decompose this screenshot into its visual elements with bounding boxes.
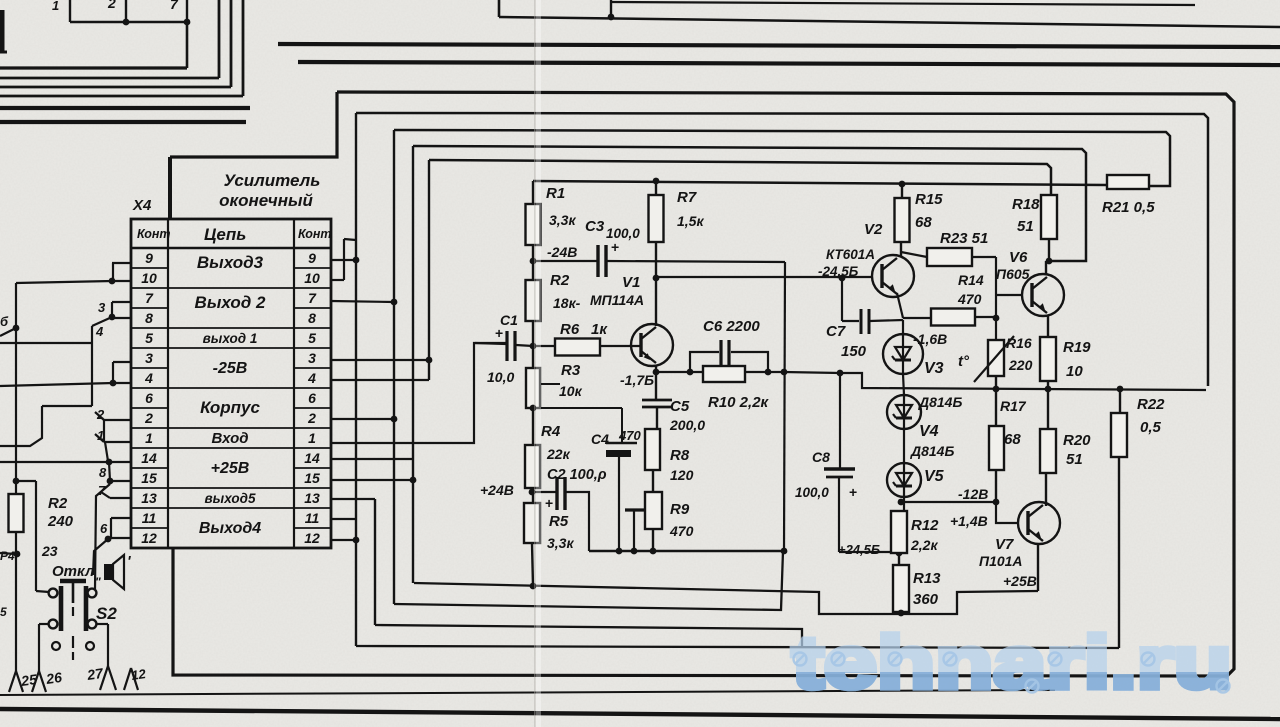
svg-text:выход 1: выход 1 bbox=[203, 331, 258, 346]
svg-text:R14: R14 bbox=[958, 272, 984, 288]
svg-text:R2: R2 bbox=[48, 495, 68, 512]
svg-text:R12: R12 bbox=[911, 517, 939, 534]
svg-text:100,0: 100,0 bbox=[606, 226, 640, 241]
svg-text:С4: С4 bbox=[591, 431, 609, 447]
svg-text:V6: V6 bbox=[1009, 249, 1028, 266]
svg-text:R15: R15 bbox=[915, 191, 943, 208]
svg-text:Д814Б: Д814Б bbox=[918, 394, 962, 410]
svg-text:3: 3 bbox=[145, 350, 153, 366]
svg-text:12: 12 bbox=[130, 666, 147, 683]
svg-text:R10 2,2к: R10 2,2к bbox=[708, 394, 770, 411]
svg-text:1: 1 bbox=[145, 430, 153, 446]
svg-text:R16: R16 bbox=[1006, 335, 1032, 351]
svg-text:68: 68 bbox=[1004, 431, 1021, 448]
svg-text:-25В: -25В bbox=[213, 360, 248, 377]
svg-text:12: 12 bbox=[304, 530, 320, 546]
svg-text:П101А: П101А bbox=[979, 553, 1023, 569]
svg-text:1: 1 bbox=[308, 430, 316, 446]
svg-text:R8: R8 bbox=[670, 447, 690, 464]
svg-text:2,2к: 2,2к bbox=[910, 537, 938, 553]
svg-text:V7: V7 bbox=[995, 536, 1014, 553]
svg-text:11: 11 bbox=[305, 510, 320, 526]
svg-text:8: 8 bbox=[308, 310, 316, 326]
svg-text:100,0: 100,0 bbox=[795, 485, 829, 500]
svg-text:10: 10 bbox=[141, 270, 157, 286]
svg-text:14: 14 bbox=[304, 450, 320, 466]
svg-text:3,3к: 3,3к bbox=[547, 535, 574, 551]
svg-text:10,0: 10,0 bbox=[487, 369, 514, 385]
svg-text:R4: R4 bbox=[541, 423, 561, 440]
svg-text:-1,6В: -1,6В bbox=[913, 331, 947, 347]
svg-text:15: 15 bbox=[141, 470, 157, 486]
svg-text:Выход4: Выход4 bbox=[199, 520, 261, 537]
svg-text:R1: R1 bbox=[546, 185, 565, 202]
svg-text:4: 4 bbox=[95, 324, 104, 339]
svg-text:-24,5Б: -24,5Б bbox=[818, 264, 859, 279]
svg-text:R21 0,5: R21 0,5 bbox=[1102, 199, 1155, 216]
svg-text:51: 51 bbox=[1066, 451, 1083, 468]
svg-text:-24В: -24В bbox=[547, 244, 577, 260]
svg-text:П605: П605 bbox=[996, 266, 1030, 282]
svg-text:R17: R17 bbox=[1000, 398, 1027, 414]
svg-text:2: 2 bbox=[144, 410, 153, 426]
svg-text:Д814Б: Д814Б bbox=[910, 443, 954, 459]
svg-text:Откл: Откл bbox=[52, 563, 95, 580]
svg-text:Усилитель: Усилитель bbox=[224, 171, 321, 190]
svg-text:С6 2200: С6 2200 bbox=[703, 318, 760, 335]
svg-text:360: 360 bbox=[913, 591, 939, 608]
svg-text:1к: 1к bbox=[591, 321, 608, 338]
svg-text:7: 7 bbox=[308, 290, 317, 306]
svg-text:Х4: Х4 bbox=[132, 197, 152, 214]
svg-text:200,0: 200,0 bbox=[669, 417, 705, 433]
svg-text:R3: R3 bbox=[561, 362, 581, 379]
svg-text:+: + bbox=[545, 495, 553, 511]
svg-text:18к-: 18к- bbox=[553, 295, 581, 311]
svg-text:С7: С7 bbox=[826, 323, 846, 340]
svg-text:5: 5 bbox=[308, 330, 316, 346]
svg-text:R7: R7 bbox=[677, 189, 697, 206]
svg-text:9: 9 bbox=[145, 250, 153, 266]
svg-text:R23 51: R23 51 bbox=[940, 230, 988, 247]
svg-text:10: 10 bbox=[1066, 363, 1083, 380]
svg-text:Конт: Конт bbox=[298, 227, 332, 241]
svg-text:3,3к: 3,3к bbox=[549, 212, 576, 228]
svg-text:14: 14 bbox=[141, 450, 157, 466]
svg-text:4: 4 bbox=[307, 370, 316, 386]
svg-text:выход5: выход5 bbox=[205, 491, 256, 506]
svg-text:11: 11 bbox=[142, 510, 157, 526]
svg-text:С5: С5 bbox=[670, 398, 690, 415]
svg-text:5: 5 bbox=[145, 330, 153, 346]
svg-text:2: 2 bbox=[96, 407, 105, 422]
svg-text:26: 26 bbox=[44, 669, 63, 687]
svg-text:12: 12 bbox=[141, 530, 157, 546]
svg-text:68: 68 bbox=[915, 214, 932, 231]
svg-text:КТ601А: КТ601А bbox=[826, 247, 875, 262]
svg-text:+: + bbox=[611, 239, 619, 255]
svg-text:240: 240 bbox=[47, 513, 74, 530]
svg-text:R2: R2 bbox=[550, 272, 570, 289]
svg-text:+24В: +24В bbox=[480, 482, 514, 498]
svg-text:1,5к: 1,5к bbox=[677, 213, 704, 229]
svg-text:V2: V2 bbox=[864, 221, 883, 238]
svg-text:Цепь: Цепь bbox=[204, 225, 246, 244]
svg-text:V4: V4 bbox=[919, 423, 939, 440]
svg-text:3: 3 bbox=[98, 300, 106, 315]
svg-text:R6: R6 bbox=[560, 321, 580, 338]
svg-text:R5: R5 bbox=[549, 513, 569, 530]
svg-text:15: 15 bbox=[304, 470, 320, 486]
svg-text:С2 100,ρ: С2 100,ρ bbox=[547, 467, 607, 483]
svg-text:22к: 22к bbox=[546, 446, 571, 462]
svg-text:13: 13 bbox=[304, 490, 320, 506]
svg-text:R22: R22 bbox=[1137, 396, 1165, 413]
svg-text:1: 1 bbox=[52, 0, 59, 13]
svg-text:R9: R9 bbox=[670, 501, 690, 518]
svg-text:1: 1 bbox=[97, 428, 104, 443]
svg-text:-1,7Б: -1,7Б bbox=[620, 372, 654, 388]
svg-text:S2: S2 bbox=[96, 604, 117, 623]
svg-text:470: 470 bbox=[957, 291, 982, 307]
svg-text:+1,4В: +1,4В bbox=[950, 513, 988, 529]
svg-text:С8: С8 bbox=[812, 449, 830, 465]
svg-text:-12В: -12В bbox=[958, 486, 988, 502]
svg-text:V3: V3 bbox=[924, 360, 944, 377]
svg-text:Корпус: Корпус bbox=[200, 398, 260, 417]
svg-text:6: 6 bbox=[145, 390, 153, 406]
svg-text:7: 7 bbox=[145, 290, 154, 306]
svg-text:25: 25 bbox=[19, 671, 38, 689]
svg-text:+24,5Б: +24,5Б bbox=[838, 542, 880, 557]
svg-text:10к: 10к bbox=[559, 383, 583, 399]
svg-text:+: + bbox=[849, 484, 857, 500]
svg-text:V1: V1 bbox=[622, 274, 640, 291]
svg-text:6: 6 bbox=[308, 390, 316, 406]
svg-text:+25В: +25В bbox=[211, 460, 250, 477]
svg-text:4: 4 bbox=[144, 370, 153, 386]
svg-text:13: 13 bbox=[141, 490, 157, 506]
svg-text:t°: t° bbox=[958, 353, 970, 370]
svg-text:51: 51 bbox=[1017, 218, 1034, 235]
svg-text:": " bbox=[95, 575, 101, 589]
svg-text:МП114А: МП114А bbox=[590, 292, 644, 308]
svg-text:R20: R20 bbox=[1063, 432, 1091, 449]
svg-text:R13: R13 bbox=[913, 570, 941, 587]
svg-text:23: 23 bbox=[41, 543, 58, 559]
svg-text:10: 10 bbox=[304, 270, 320, 286]
svg-text:С3: С3 bbox=[585, 218, 605, 235]
svg-text:9: 9 bbox=[308, 250, 316, 266]
svg-text:220: 220 bbox=[1008, 357, 1033, 373]
svg-text:0,5: 0,5 bbox=[1140, 419, 1162, 436]
svg-text:120: 120 bbox=[670, 467, 694, 483]
svg-text:8: 8 bbox=[99, 465, 107, 480]
svg-text:V5: V5 bbox=[924, 468, 945, 485]
svg-text:6: 6 bbox=[100, 521, 108, 536]
svg-text:': ' bbox=[127, 553, 131, 570]
svg-text:б: б bbox=[0, 314, 9, 329]
svg-text:470: 470 bbox=[669, 523, 694, 539]
svg-text:470: 470 bbox=[618, 428, 641, 443]
svg-text:5: 5 bbox=[0, 605, 7, 619]
svg-text:2: 2 bbox=[107, 0, 116, 11]
svg-text:R19: R19 bbox=[1063, 339, 1091, 356]
svg-text:Выход 2: Выход 2 bbox=[195, 293, 266, 312]
svg-text:150: 150 bbox=[841, 343, 867, 360]
svg-text:+25В: +25В bbox=[1003, 573, 1037, 589]
svg-text:С1: С1 bbox=[500, 312, 518, 328]
svg-text:3: 3 bbox=[308, 350, 316, 366]
svg-text:Вход: Вход bbox=[211, 430, 248, 447]
svg-text:R18: R18 bbox=[1012, 196, 1040, 213]
svg-text:Выход3: Выход3 bbox=[197, 253, 264, 272]
svg-text:2: 2 bbox=[307, 410, 316, 426]
svg-text:7: 7 bbox=[170, 0, 179, 12]
svg-text:Р4: Р4 bbox=[0, 549, 15, 563]
svg-text:8: 8 bbox=[145, 310, 153, 326]
svg-text:Конт: Конт bbox=[137, 227, 171, 241]
svg-text:оконечный: оконечный bbox=[219, 191, 313, 210]
